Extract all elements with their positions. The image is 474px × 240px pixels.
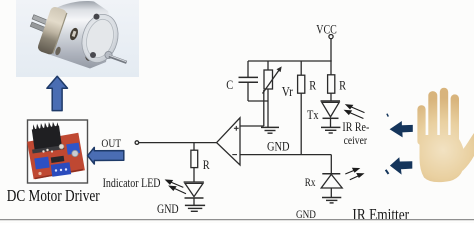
wire indicator R drop: [193, 143, 195, 151]
blue up arrow: [47, 76, 68, 110]
wire Tx to ground: [330, 118, 332, 127]
hand: [417, 88, 474, 182]
driver box frame: [28, 120, 88, 183]
wire LED to ground: [193, 198, 195, 205]
motor brush slot: [69, 27, 80, 41]
motor end cap: [37, 6, 68, 56]
pinky finger: [417, 105, 425, 145]
svg-text:DC Motor Driver: DC Motor Driver: [7, 188, 100, 206]
motor screw hole bottom: [90, 52, 96, 58]
svg-text:GND: GND: [267, 139, 290, 153]
svg-text:R: R: [203, 158, 210, 172]
driver terminal block left: [34, 157, 49, 170]
Rx outgoing arrows: [345, 170, 355, 174]
capacitor C plates: [239, 76, 259, 78]
motor vent slot: [84, 46, 97, 62]
motor terminal tabs: [29, 15, 48, 32]
driver heatsink: [29, 120, 65, 153]
index finger: [451, 94, 459, 146]
diode Tx anode bar: [321, 100, 341, 102]
diode Rx triangle: [321, 174, 342, 188]
wire plus riser: [263, 90, 265, 126]
Tx incoming arrows: [349, 106, 365, 113]
wire Vr top: [267, 61, 269, 70]
motor can body: [43, 1, 113, 68]
Vr wiper arrow: [263, 69, 281, 94]
resistor R (comparator): [298, 75, 305, 93]
svg-text:ceiver: ceiver: [344, 134, 368, 147]
svg-text:C: C: [226, 78, 233, 92]
block arrow 1: [390, 121, 413, 137]
bottom border line: [0, 219, 474, 221]
driver red PCB: [27, 133, 85, 179]
ground G1: [261, 126, 279, 128]
svg-text:IR Re-: IR Re-: [342, 121, 369, 134]
LED D1 triangle: [185, 183, 203, 196]
ground G3: [322, 197, 341, 199]
middle finger: [440, 88, 448, 146]
svg-text:R: R: [309, 78, 316, 92]
motor photo background: [16, 0, 139, 77]
driver header: [51, 156, 65, 163]
svg-text:Indicator LED: Indicator LED: [103, 177, 161, 190]
wire output: [139, 142, 217, 144]
wire top rail: [248, 60, 332, 62]
svg-text:Tx: Tx: [307, 108, 319, 122]
motor screw hole top: [94, 14, 100, 20]
resistor R (Tx): [328, 75, 335, 93]
diode Rx cathode bar: [322, 173, 340, 175]
driver terminal block right: [66, 143, 80, 155]
wire right R top: [330, 61, 332, 75]
wire left R to minus: [300, 93, 302, 154]
wire VCC drop: [330, 39, 332, 61]
op-amp plus sign: [232, 126, 238, 155]
driver silkscreen specks: [42, 150, 44, 152]
driver capacitor white: [59, 144, 64, 149]
LED D1 anode bar: [184, 181, 204, 183]
ground G2: [321, 126, 340, 128]
driver PCB bottom shadow: [35, 170, 83, 179]
diode Tx triangle: [322, 102, 339, 117]
diode Tx cathode bar: [323, 117, 339, 119]
wire Rx to ground: [330, 188, 332, 197]
block arrow 2: [390, 157, 412, 174]
motor front face: [77, 10, 123, 66]
svg-text:VCC: VCC: [316, 23, 337, 36]
motor shaft: [109, 56, 127, 62]
wire indicator R to LED: [193, 168, 195, 182]
svg-text:IR Emitter: IR Emitter: [352, 207, 409, 223]
VCC terminal circle: [329, 35, 333, 39]
svg-text:OUT: OUT: [101, 137, 121, 150]
variable resistor Vr body: [264, 70, 273, 89]
LED D1 cathode bar: [185, 197, 204, 199]
wire Rx drop: [330, 155, 332, 174]
palm: [420, 135, 465, 182]
motor vent slot small: [54, 46, 61, 56]
ground G4: [185, 204, 205, 206]
tick 2: [386, 170, 389, 174]
resistor R (indicator): [191, 150, 198, 167]
op-amp U1: [217, 118, 240, 165]
driver terminal block bottom: [51, 162, 71, 177]
wire right R to LED: [330, 93, 332, 101]
wire Vr to ground: [267, 89, 269, 127]
LED D1 emission arrows: [166, 105, 365, 194]
driver capacitor silver: [72, 150, 78, 156]
wire C top: [247, 61, 249, 77]
wire left R drop: [300, 61, 302, 75]
wire plus input: [240, 125, 264, 127]
svg-text:R: R: [339, 78, 346, 92]
blue OUT arrow: [88, 147, 124, 164]
svg-text:Rx: Rx: [305, 177, 316, 189]
wire C bottom: [247, 83, 249, 101]
svg-text:GND: GND: [157, 203, 179, 216]
tick 1: [387, 114, 388, 117]
node OUT circle: [135, 141, 139, 145]
wire minus input: [240, 154, 331, 156]
svg-text:Vr: Vr: [282, 84, 294, 99]
wire C to Vr link: [248, 100, 268, 102]
op-amp minus sign: [232, 154, 237, 156]
thumb: [460, 133, 474, 171]
ring finger: [428, 91, 437, 145]
motor shaft boss: [105, 51, 112, 58]
